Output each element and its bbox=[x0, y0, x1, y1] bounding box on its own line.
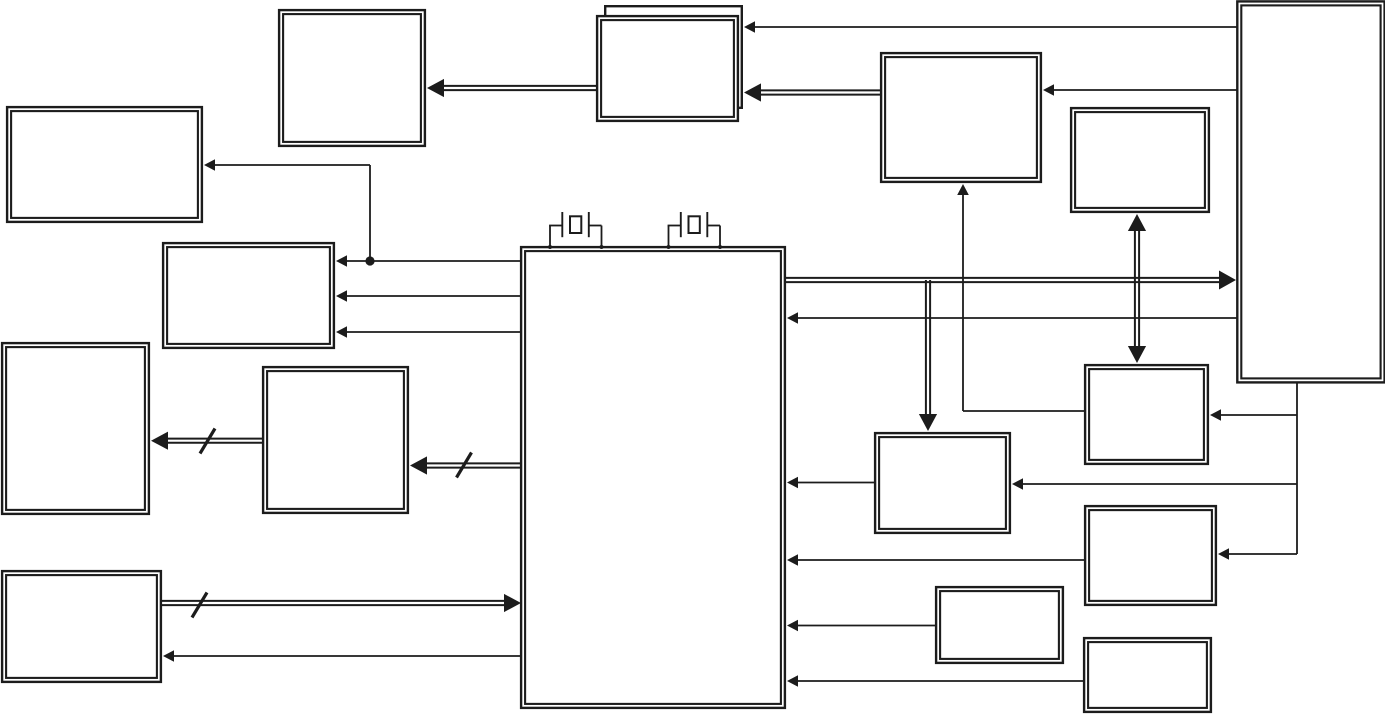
wire net11: drop to B12 right edge bbox=[1210, 409, 1297, 421]
block B16 bottom-left bbox=[2, 571, 161, 682]
block B12 right bbox=[1085, 365, 1208, 464]
junction dot on net18 bbox=[365, 256, 374, 265]
wire net1: B6 left edge to stacked box B3 (top) bbox=[744, 21, 1237, 33]
block B3 stacked front bbox=[597, 16, 738, 121]
wire net17: B15 left to B10 right edge bbox=[787, 675, 1083, 687]
wire net18: B10 left to B7 right (line 1) with branch to B1 bbox=[204, 159, 521, 267]
block B4 top-right bbox=[881, 53, 1041, 182]
block B14 bottom-center bbox=[936, 587, 1063, 663]
wire bus3: B4 left to stacked box B3 right (double line) bbox=[744, 83, 880, 101]
wire net13: drop to B11 right edge bbox=[1012, 478, 1297, 490]
wire bus8: branch from bus down into B11 top (double line, arrow down) bbox=[919, 280, 937, 431]
wire bus6: system bus from B10 right to B6 left (double line, arrow right) bbox=[786, 271, 1236, 290]
wire net12: drop to B13 right edge bbox=[1218, 548, 1297, 560]
block B1 top-left bbox=[7, 107, 202, 222]
block B8 left tall bbox=[2, 343, 149, 514]
wire bus4: B3 left to B2 right (double line) bbox=[427, 79, 596, 97]
crystal Y2 bbox=[667, 212, 723, 249]
block B2 top bbox=[279, 10, 425, 146]
wire net14: B11 left to B10 right edge bbox=[787, 477, 874, 489]
wire net16: B14 left to B10 right edge bbox=[787, 620, 935, 632]
wire net10: vertical drop from B6 bottom bbox=[1296, 382, 1298, 554]
block B6 far-right tall bbox=[1237, 1, 1384, 382]
wire net20: B10 left to B7 right (line 3) bbox=[336, 326, 521, 338]
block B10 central MCU bbox=[521, 247, 785, 708]
block B9 center-left bbox=[263, 367, 408, 513]
block B5 right-upper bbox=[1071, 108, 1209, 212]
wire bus5: bidirectional arrow B5 bottom to B12 top bbox=[1128, 214, 1146, 363]
block B13 right-lower bbox=[1085, 506, 1216, 605]
wire bus23: B16 right to B10 left (double line, slash, arrow right) bbox=[162, 593, 521, 618]
wire bus22: B9 left to B8 right (double line, slash) bbox=[151, 429, 262, 454]
wire net19: B10 left to B7 right (line 2) bbox=[336, 290, 521, 302]
block B11 mid-right bbox=[875, 433, 1010, 533]
wire bus21: B10 left to B9 right (double line, slash) bbox=[410, 453, 521, 478]
wire net7: B6 left to B10 right edge bbox=[787, 312, 1237, 324]
block B15 bottom-right bbox=[1084, 638, 1211, 712]
wire net15: B13 left to B10 right edge bbox=[787, 554, 1084, 566]
wire net24: B10 left to B16 right edge bbox=[163, 650, 521, 662]
block B7 mid-left bbox=[163, 243, 334, 348]
crystal Y1 bbox=[548, 212, 604, 249]
block B3 stacked back sheet bbox=[605, 6, 742, 108]
wire net2: B6 left edge to B4 right edge bbox=[1043, 84, 1237, 96]
wire net9: B12 left edge up into B4 bottom bbox=[957, 184, 1084, 411]
